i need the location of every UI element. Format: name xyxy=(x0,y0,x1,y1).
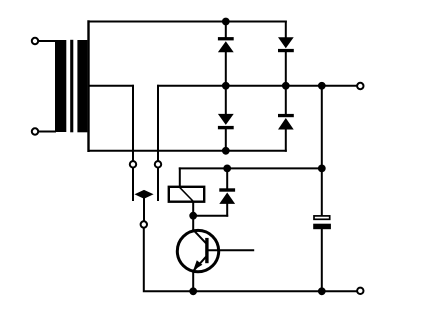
wire secondary left vertical xyxy=(87,22,89,151)
junction dot capacitor bottom xyxy=(318,287,326,295)
wire capacitor branch xyxy=(321,86,323,215)
diode D3 xyxy=(278,22,294,86)
diode D2 xyxy=(218,86,234,151)
wire middle output rail xyxy=(158,85,357,87)
wire top rail xyxy=(89,21,286,23)
terminal contact B xyxy=(155,161,161,167)
terminal AC-in top xyxy=(32,38,38,44)
transformer TR1 primary winding xyxy=(55,40,66,132)
wire wiper to bottom rail xyxy=(144,228,357,291)
junction dot collector node xyxy=(189,212,197,220)
wire relay supply xyxy=(180,167,322,169)
diode D1 xyxy=(218,22,234,86)
capacitor C1 xyxy=(313,216,331,291)
terminal contact A xyxy=(130,161,136,167)
diode D5 xyxy=(219,168,235,215)
wire fixed contact A xyxy=(132,168,134,200)
relay coil K1 xyxy=(169,168,204,215)
relay moving contact (diamond) xyxy=(136,190,153,198)
terminal output - xyxy=(357,288,363,294)
wire xyxy=(39,131,55,133)
wire riser from contact B to + rail xyxy=(157,86,159,161)
wire wiper stem xyxy=(143,197,145,221)
transistor Q1 xyxy=(177,216,253,292)
wire bottom bridge rail xyxy=(89,150,286,152)
terminal wiper C xyxy=(141,221,147,227)
junction dot mid rail right xyxy=(282,82,290,90)
junction dot cap branch lower xyxy=(318,165,326,173)
junction dot D5 top xyxy=(223,165,231,173)
wire down to terminal xyxy=(132,86,134,161)
junction dot mid rail left xyxy=(222,82,230,90)
wire collector node xyxy=(193,215,227,217)
wire center-tap stub xyxy=(89,85,134,87)
terminal AC-in bottom xyxy=(32,128,38,134)
transformer TR1 core xyxy=(70,40,73,133)
junction dot bottom bridge rail xyxy=(222,147,230,155)
wire xyxy=(39,40,55,42)
transformer TR1 secondary winding xyxy=(77,40,87,132)
wire fixed contact B xyxy=(157,168,159,200)
junction dot mid rail cap branch xyxy=(318,82,326,90)
junction dot top rail xyxy=(222,18,230,26)
terminal output + xyxy=(357,83,363,89)
diode D4 xyxy=(278,86,294,151)
junction dot emitter xyxy=(189,287,197,295)
